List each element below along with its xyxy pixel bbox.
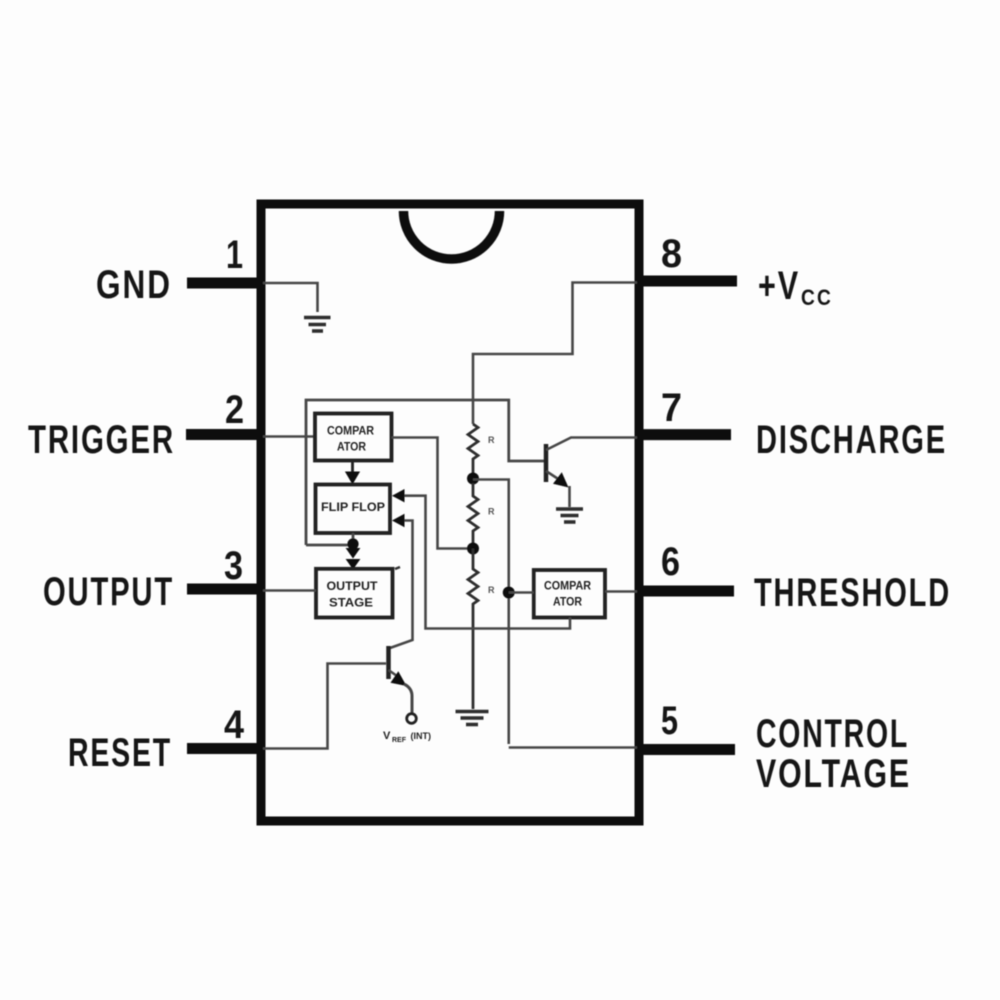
svg-text:RESET: RESET xyxy=(68,731,172,775)
pin 5 lead xyxy=(637,744,735,755)
svg-text:(INT): (INT) xyxy=(408,731,431,741)
svg-text:FLIP FLOP: FLIP FLOP xyxy=(321,502,385,514)
notch (index mark) at top of package xyxy=(404,211,500,259)
ground symbol (Q1 emitter) xyxy=(556,509,583,522)
wire: loop bottom to node below flip-flop xyxy=(306,544,353,547)
wire: trigger pin to comparator 1 xyxy=(263,435,315,438)
net: flip-flop output loop to discharge transistor base xyxy=(306,400,544,545)
svg-text:R: R xyxy=(488,507,495,517)
Q1 emitter with arrow xyxy=(546,471,559,480)
pin 2 lead xyxy=(186,429,263,440)
tick at output stage corner xyxy=(395,567,400,569)
wire: junction to control-voltage rail xyxy=(473,480,509,745)
svg-text:ATOR: ATOR xyxy=(337,442,367,454)
node: R2/R3 junction xyxy=(467,543,479,555)
terminal: Vref (int) open circle xyxy=(407,714,417,724)
wire: tap to comparator 2 xyxy=(509,591,534,594)
ground symbol (pin 1) xyxy=(304,318,331,332)
svg-text:3: 3 xyxy=(224,544,243,588)
svg-text:ATOR: ATOR xyxy=(553,597,583,609)
svg-text:5: 5 xyxy=(661,699,678,743)
wire: pin 3 to output stage xyxy=(263,589,316,592)
node: control voltage tap xyxy=(503,587,515,599)
svg-text:GND: GND xyxy=(96,263,172,307)
wire: +Vcc from pin 8 down to resistor chain xyxy=(473,283,637,425)
arrow: comparator 1 to flip-flop xyxy=(351,461,354,475)
svg-text:CONTROL: CONTROL xyxy=(756,712,909,756)
svg-text:8: 8 xyxy=(661,232,682,276)
svg-text:COMPAR: COMPAR xyxy=(544,581,592,593)
svg-text:+V: +V xyxy=(758,264,800,308)
svg-text:DISCHARGE: DISCHARGE xyxy=(756,418,947,462)
svg-text:CC: CC xyxy=(801,285,833,310)
svg-text:STAGE: STAGE xyxy=(329,598,373,610)
svg-text:6: 6 xyxy=(661,540,680,584)
transistor Q2 (reset) base bar xyxy=(386,646,391,679)
comparator U2 (threshold) box xyxy=(534,570,605,618)
svg-text:4: 4 xyxy=(224,703,245,747)
arrowhead into flip-flop upper input xyxy=(392,489,405,502)
wire: comparator 2 output to flip-flop upper input xyxy=(403,496,570,629)
double arrow: flip-flop to output stage xyxy=(346,548,361,559)
wire: Q1 emitter to ground xyxy=(568,486,571,507)
svg-text:R: R xyxy=(488,435,495,445)
svg-text:REF: REF xyxy=(392,737,407,744)
node: flip-flop output junction xyxy=(352,533,355,545)
pin 8 lead xyxy=(637,276,737,287)
transistor Q1 (discharge) base bar xyxy=(544,444,549,482)
Q2 emitter with arrow xyxy=(389,670,398,676)
svg-text:VOLTAGE: VOLTAGE xyxy=(756,752,911,796)
flip-flop box xyxy=(316,485,391,534)
Q1 collector xyxy=(546,438,637,451)
pin 1 lead xyxy=(187,278,263,289)
wire: comparator 2 to pin 6 xyxy=(605,590,637,593)
wire: reset pin to Q2 base xyxy=(263,664,386,749)
ground symbol (resistor chain) xyxy=(456,712,489,725)
svg-text:2: 2 xyxy=(225,388,244,432)
pin 6 lead xyxy=(637,586,734,597)
wire: Q2 collector to flip-flop lower input xyxy=(390,521,413,649)
IC package outline xyxy=(261,204,639,821)
svg-text:1: 1 xyxy=(226,233,243,277)
pin 3 lead xyxy=(187,584,263,595)
svg-text:7: 7 xyxy=(661,386,682,430)
svg-text:R: R xyxy=(488,585,495,595)
pin 7 lead xyxy=(637,429,731,440)
arrowhead into flip-flop lower input xyxy=(392,514,405,527)
wire: comparator 1 output down to 1/3 Vcc node xyxy=(392,438,469,549)
svg-text:OUTPUT: OUTPUT xyxy=(327,581,378,593)
wire: control voltage pin 5 line xyxy=(509,746,637,749)
output stage box xyxy=(316,569,393,618)
svg-text:OUTPUT: OUTPUT xyxy=(43,570,174,614)
resistor R1 xyxy=(468,424,478,474)
node: R1/R2 junction xyxy=(467,473,479,485)
svg-text:TRIGGER: TRIGGER xyxy=(28,418,175,462)
wire: pin1 to internal ground xyxy=(263,283,318,312)
svg-text:COMPAR: COMPAR xyxy=(327,426,375,438)
wire: Q2 emitter to Vref terminal xyxy=(404,684,412,713)
resistor R3 xyxy=(468,549,478,710)
comparator U1 (trigger) box xyxy=(315,414,392,461)
svg-text:V: V xyxy=(383,730,391,742)
svg-text:THRESHOLD: THRESHOLD xyxy=(754,571,951,615)
pin 4 lead xyxy=(187,743,263,754)
resistor R2 xyxy=(468,483,478,544)
